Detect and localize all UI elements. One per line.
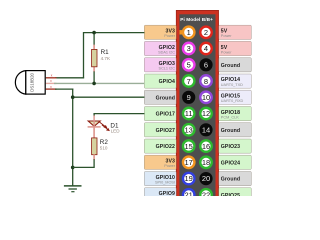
svg-text:GPIO25: GPIO25 xyxy=(221,193,240,196)
svg-text:11: 11 xyxy=(185,109,193,118)
svg-text:8: 8 xyxy=(204,77,208,86)
svg-text:SCL1 I2C: SCL1 I2C xyxy=(159,67,176,71)
svg-text:6: 6 xyxy=(204,61,208,70)
svg-text:2: 2 xyxy=(204,28,208,37)
svg-text:9: 9 xyxy=(187,93,191,102)
svg-text:Power: Power xyxy=(221,50,232,54)
svg-text:510: 510 xyxy=(100,145,108,150)
svg-text:UART0_RXD: UART0_RXD xyxy=(221,99,244,103)
svg-text:PCM_CLK: PCM_CLK xyxy=(221,116,239,120)
svg-text:GPIO4: GPIO4 xyxy=(159,79,175,85)
svg-text:14: 14 xyxy=(202,126,210,135)
svg-text:19: 19 xyxy=(185,174,193,183)
svg-text:5: 5 xyxy=(187,61,191,70)
svg-text:LED: LED xyxy=(111,129,121,134)
svg-text:22: 22 xyxy=(202,191,210,197)
svg-text:12: 12 xyxy=(202,109,210,118)
svg-text:15: 15 xyxy=(185,142,193,151)
svg-text:SPI0_MOSI: SPI0_MOSI xyxy=(155,181,175,185)
svg-text:GPIO24: GPIO24 xyxy=(221,160,240,166)
svg-text:UART0_TXD: UART0_TXD xyxy=(221,83,243,87)
svg-text:Ground: Ground xyxy=(221,63,240,69)
svg-text:Ground: Ground xyxy=(156,95,175,101)
svg-text:Ground: Ground xyxy=(221,128,240,134)
svg-text:7: 7 xyxy=(187,77,191,86)
svg-text:18: 18 xyxy=(202,158,210,167)
svg-text:GPIO17: GPIO17 xyxy=(156,112,175,118)
svg-text:20: 20 xyxy=(202,174,210,183)
svg-text:16: 16 xyxy=(202,142,210,151)
svg-text:SDA1 I2C: SDA1 I2C xyxy=(158,50,175,54)
svg-text:GPIO9: GPIO9 xyxy=(159,191,175,196)
svg-text:13: 13 xyxy=(185,126,193,135)
svg-text:17: 17 xyxy=(185,158,193,167)
svg-text:DS18B20: DS18B20 xyxy=(30,72,35,91)
svg-text:Ground: Ground xyxy=(221,177,240,183)
svg-text:10: 10 xyxy=(202,93,210,102)
svg-text:3: 3 xyxy=(187,44,191,53)
svg-text:1: 1 xyxy=(187,28,191,37)
svg-text:GPIO27: GPIO27 xyxy=(156,128,175,134)
svg-text:4: 4 xyxy=(204,44,208,53)
svg-text:21: 21 xyxy=(185,191,193,197)
svg-text:Power: Power xyxy=(221,34,232,38)
svg-text:Power: Power xyxy=(164,34,175,38)
svg-text:Pi Model B/B+: Pi Model B/B+ xyxy=(180,17,213,22)
svg-text:4.7K: 4.7K xyxy=(101,56,111,61)
svg-text:Power: Power xyxy=(164,164,175,168)
svg-text:GPIO22: GPIO22 xyxy=(156,144,175,150)
svg-text:GPIO23: GPIO23 xyxy=(221,144,240,150)
